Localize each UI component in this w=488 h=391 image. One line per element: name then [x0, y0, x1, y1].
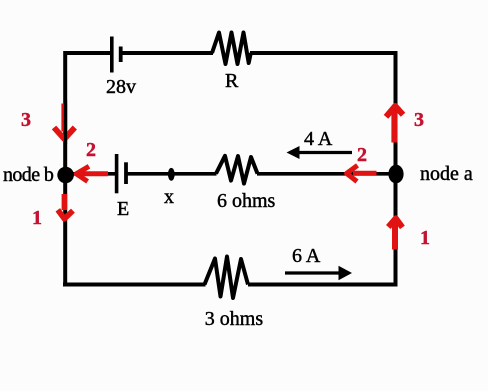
battery E plate short	[124, 162, 128, 184]
value label R	[225, 71, 238, 91]
battery 28v plate long	[110, 37, 114, 73]
resistor R	[212, 33, 251, 65]
red branch arrow 2 right (into node a)	[347, 165, 377, 181]
wire middle branch	[72, 172, 392, 176]
branch number 2 left	[86, 140, 96, 160]
wire right side	[394, 51, 398, 286]
node label node b	[3, 165, 53, 185]
red branch arrow 1 left (down)	[58, 194, 73, 219]
branch number 3 left	[21, 110, 31, 130]
node x dot	[168, 168, 175, 181]
wire overlay on left arrow 3	[64, 100, 67, 144]
node b junction dot	[57, 167, 74, 184]
wire bottom side	[63, 283, 398, 287]
current arrow 4 A	[287, 146, 353, 159]
branch number 3 right	[414, 110, 424, 130]
value label 6 ohms	[217, 191, 275, 211]
current label 4 A	[304, 129, 332, 149]
value label 28v	[106, 77, 136, 97]
value label E	[117, 199, 129, 219]
branch number 1 left	[32, 208, 42, 228]
branch number 1 right	[420, 228, 430, 248]
battery E plate long	[115, 154, 119, 193]
value label 3 ohms	[205, 309, 263, 329]
node label x	[164, 187, 174, 207]
current arrow 6 A	[285, 266, 352, 280]
red branch arrow 3 right (up)	[386, 106, 403, 143]
red branch arrow 2 left (into node b)	[76, 166, 108, 181]
resistor 3 ohms	[205, 257, 249, 299]
resistor 6 ohms	[216, 156, 258, 184]
current label 6 A	[292, 246, 320, 266]
red branch arrow 3 left (down)	[54, 104, 75, 140]
wire top side	[65, 51, 398, 55]
red branch arrow 1 right (up)	[388, 218, 402, 249]
wire left side	[63, 51, 67, 286]
branch number 2 right	[357, 145, 367, 165]
node label node a	[420, 164, 473, 184]
node a junction dot	[388, 165, 403, 184]
battery 28v plate short	[119, 47, 123, 63]
